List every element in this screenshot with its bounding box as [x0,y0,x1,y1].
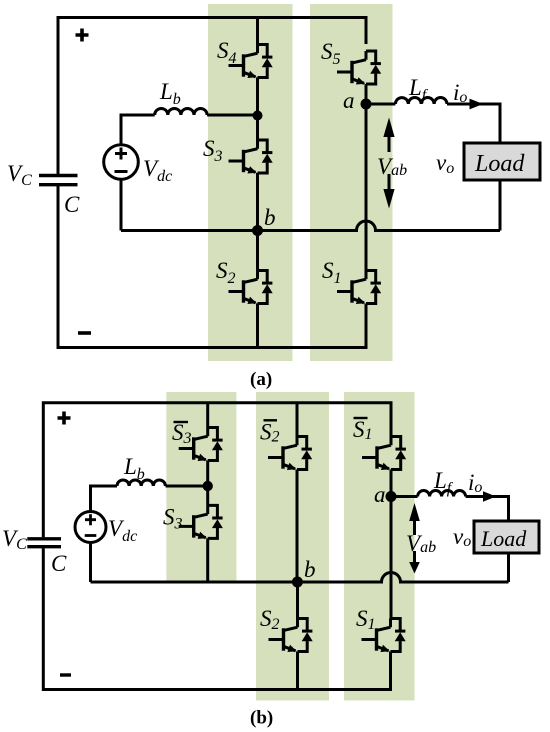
svg-text:a: a [374,482,386,507]
svg-text:VC: VC [2,526,27,553]
svg-text:Lb: Lb [159,79,181,108]
svg-text:Lf: Lf [433,468,454,497]
svg-text:Vdc: Vdc [108,516,137,545]
svg-text:C: C [64,192,80,217]
svg-text:Lf: Lf [408,75,429,104]
svg-text:vo: vo [436,150,454,177]
svg-text:io: io [468,470,482,496]
svg-text:Lb: Lb [123,454,145,483]
svg-text:vo: vo [453,524,471,550]
svg-text:b: b [264,205,276,230]
svg-text:(a): (a) [250,369,272,390]
svg-text:VC: VC [7,161,32,189]
svg-text:(b): (b) [250,708,273,729]
svg-text:Load: Load [474,151,525,177]
svg-text:io: io [453,80,467,106]
svg-text:a: a [343,88,355,113]
svg-text:Load: Load [480,526,527,551]
svg-text:Vab: Vab [406,531,436,556]
svg-text:Vdc: Vdc [143,156,172,185]
svg-text:C: C [51,551,67,576]
svg-text:b: b [304,557,316,582]
